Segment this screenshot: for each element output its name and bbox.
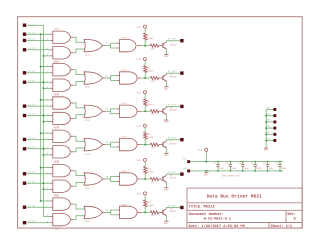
wire stub right pad 5: [266, 133, 273, 135]
svg-text:T2: T2: [170, 73, 173, 76]
wire pad 3b to gate: [26, 115, 50, 117]
node output pad D2: [180, 105, 183, 108]
svg-text:2: 2: [47, 172, 48, 174]
node junction row 4: [144, 144, 146, 146]
wire IC1D out to junction: [141, 45, 150, 47]
svg-text:1: 1: [47, 131, 48, 133]
svg-text:D3 OUT: D3 OUT: [168, 137, 176, 140]
wire junction up: [144, 106, 146, 112]
node junction row 1: [144, 45, 146, 47]
svg-text:100n: 100n: [281, 167, 286, 170]
node cap pad VCC: [187, 160, 190, 163]
wire cap top rail: [190, 161, 283, 163]
node input pad 6a: [23, 206, 26, 209]
wire bus A to gate input row 4: [41, 132, 51, 134]
svg-text:BC337: BC337: [170, 109, 177, 112]
wire bus A to gate input row 2: [41, 66, 51, 68]
svg-text:D5 B5: D5 B5: [28, 220, 35, 223]
and-gate IC5A: [50, 161, 73, 177]
node output pad D1: [180, 71, 183, 74]
wire pad 4a to gate: [26, 138, 50, 140]
wire OR out to IC2D: [106, 75, 117, 81]
svg-text:D1 A1: D1 A1: [28, 70, 35, 73]
and-gate IC3A: [50, 93, 73, 109]
wire IC3B out to OR: [73, 115, 85, 119]
power VCC row 2: [137, 58, 147, 61]
wire emitter down: [165, 49, 167, 53]
wire bus A to gate input row 5: [41, 167, 51, 169]
node junction row 6: [144, 211, 146, 213]
node input pad 3b: [23, 114, 26, 117]
svg-text:GND: GND: [164, 88, 168, 91]
node output pad D0: [180, 39, 183, 42]
svg-text:BC337: BC337: [170, 44, 177, 47]
svg-text:R2: R2: [151, 70, 154, 73]
title block: [187, 188, 302, 228]
resistor R6A pullup: [144, 200, 151, 207]
wire IC3D out to junction: [141, 110, 150, 112]
ground row 5: [164, 186, 169, 191]
svg-text:IC5A: IC5A: [53, 161, 59, 164]
svg-text:4: 4: [47, 215, 48, 217]
svg-text:GND: GND: [267, 107, 271, 110]
wire pad 3a to gate: [26, 105, 50, 107]
svg-text:GND: GND: [267, 113, 271, 116]
svg-text:2k2: 2k2: [151, 146, 155, 149]
wire input row1: [26, 33, 50, 35]
border frame: [18, 17, 303, 228]
svg-text:N6: N6: [106, 209, 108, 211]
or-gate IC3C: [84, 105, 106, 122]
wire resistor to base: [159, 211, 163, 213]
svg-text:1: 1: [47, 166, 48, 168]
svg-text:GND: GND: [204, 174, 208, 177]
svg-text:5: 5: [47, 54, 48, 56]
svg-text:4k7: 4k7: [147, 104, 151, 107]
wire IC4B out to OR: [73, 148, 85, 152]
svg-text:4: 4: [47, 181, 48, 183]
svg-text:4 5: 4 5: [86, 218, 90, 220]
and-gate IC4A: [50, 127, 73, 143]
svg-text:4k7: 4k7: [147, 171, 151, 174]
and-gate IC1A: [50, 28, 73, 44]
wire emitter down: [165, 182, 167, 186]
svg-text:D4 A4: D4 A4: [28, 171, 35, 174]
wire input row1: [26, 39, 50, 41]
svg-text:4k7: 4k7: [147, 137, 151, 140]
wire IC2A out to OR: [73, 70, 85, 75]
wire stub right pad 4: [266, 127, 273, 129]
power VCC row 3: [137, 91, 147, 94]
node output pad D5: [180, 206, 183, 209]
node right pad 3: [273, 121, 276, 124]
node input pad row1: [23, 39, 26, 42]
power VCC row 5: [137, 159, 147, 162]
svg-text:N4: N4: [106, 142, 108, 144]
svg-text:D0 OUT: D0 OUT: [168, 38, 176, 41]
node cap pad GND: [187, 170, 190, 173]
svg-text:GND: GND: [183, 167, 187, 170]
svg-text:D2 B2: D2 B2: [28, 113, 35, 116]
transistor T4 BC337: [163, 140, 177, 148]
svg-text:IC6A: IC6A: [53, 195, 59, 198]
svg-text:Data Bus Driver M621: Data Bus Driver M621: [207, 194, 262, 199]
svg-text:Sheet: 1/1: Sheet: 1/1: [271, 224, 293, 228]
wire bus B to gate input: [44, 55, 51, 57]
svg-text:5: 5: [47, 187, 48, 189]
svg-text:GND: GND: [267, 138, 271, 141]
wire pad 6a to gate: [26, 206, 50, 208]
wire pad 2a to gate: [26, 72, 50, 74]
svg-text:5: 5: [47, 120, 48, 122]
wire resistor to VCC: [144, 195, 146, 200]
svg-text:IC6C: IC6C: [85, 220, 91, 223]
wire collector to output pad: [166, 174, 180, 175]
resistor R2A pullup: [144, 66, 151, 73]
ground row 2: [164, 85, 169, 90]
node junction row 5: [144, 178, 146, 180]
svg-text:D4 OUT: D4 OUT: [168, 171, 176, 174]
wire bus A vertical: [40, 34, 42, 201]
svg-text:W-CS-M621-0-1: W-CS-M621-0-1: [204, 217, 231, 221]
wire IC5D out to junction: [141, 178, 150, 180]
wire IC5B out to OR: [73, 182, 85, 186]
wire IC6B out to OR: [73, 216, 85, 220]
wire bus B to gate input row 2: [44, 87, 51, 89]
svg-text:R6: R6: [151, 204, 154, 207]
and-gate IC1B: [50, 47, 73, 64]
wire resistor to base: [159, 178, 163, 180]
ground row 6: [164, 219, 169, 224]
svg-text:C4: C4: [251, 162, 254, 165]
svg-text:R12: R12: [147, 201, 151, 204]
wire IC1B out to OR: [73, 49, 85, 53]
svg-text:N5: N5: [106, 176, 108, 178]
wire bus B to gate input row 4: [44, 154, 51, 156]
node junction row 3: [144, 110, 146, 112]
resistor R1A pullup: [144, 33, 151, 40]
wire resistor to VCC: [144, 127, 146, 132]
ground row 3: [164, 118, 169, 123]
resistor R4B base: [150, 136, 158, 149]
svg-text:REV:: REV:: [287, 212, 295, 216]
transistor T2 BC337: [163, 73, 177, 81]
and-gate IC3B: [50, 112, 73, 129]
svg-text:IC1D: IC1D: [121, 37, 127, 40]
wire pad 5b to gate: [26, 182, 50, 184]
svg-text:4: 4: [47, 114, 48, 116]
wire junction up: [144, 72, 146, 78]
wire IC6D out to junction: [141, 211, 150, 213]
svg-text:IC2D: IC2D: [121, 69, 127, 72]
capacitor C6: [275, 161, 286, 172]
wire junction up: [144, 40, 146, 46]
svg-text:2k2: 2k2: [151, 80, 155, 83]
and-gate IC2A: [50, 60, 73, 76]
svg-text:4k7: 4k7: [147, 205, 151, 208]
wire stub right pad 1: [266, 109, 273, 111]
resistor R3B base: [150, 103, 158, 116]
wire emitter down: [165, 81, 167, 85]
svg-text:GND: GND: [164, 154, 168, 157]
wire resistor to VCC: [144, 60, 146, 65]
node junction row 2: [144, 77, 146, 79]
svg-text:2: 2: [47, 71, 48, 73]
svg-text:R10: R10: [147, 133, 151, 136]
wire right ground bus vertical: [265, 110, 267, 147]
svg-text:Date: 1/29/2017 4:03:04 PM: Date: 1/29/2017 4:03:04 PM: [189, 224, 245, 228]
svg-text:D3 A3: D3 A3: [28, 137, 35, 140]
svg-text:R4: R4: [151, 136, 154, 139]
wire IC1A out to OR: [73, 37, 85, 42]
svg-text:R7: R7: [147, 34, 150, 37]
svg-text:D0 A2: D0 A2: [28, 38, 35, 41]
and-gate IC2B: [50, 79, 73, 96]
svg-text:100n: 100n: [244, 167, 249, 170]
node right pad 1: [273, 108, 276, 111]
svg-text:C6: C6: [275, 162, 278, 165]
svg-text:T5: T5: [170, 174, 173, 177]
wire junction up: [144, 173, 146, 179]
svg-text:IC3C: IC3C: [85, 119, 91, 122]
wire bus A to gate input row 6: [41, 200, 51, 202]
or-gate IC4C: [84, 138, 106, 155]
svg-text:IC5D: IC5D: [121, 170, 127, 173]
svg-text:2: 2: [47, 138, 48, 140]
wire resistor to VCC: [144, 28, 146, 33]
svg-text:N3: N3: [106, 108, 108, 110]
ground row 1: [164, 53, 169, 58]
svg-text:VCC: VCC: [183, 158, 187, 161]
svg-text:GND: GND: [164, 55, 168, 58]
node input pad row1: [23, 33, 26, 36]
transistor T6 BC337: [163, 208, 177, 216]
wire OR out to IC3D: [106, 108, 117, 114]
svg-text:Document Number:: Document Number:: [189, 212, 225, 216]
wire OR out to IC6D: [106, 209, 117, 215]
and-gate IC3D: [117, 102, 141, 117]
and-gate IC5B: [50, 180, 73, 197]
wire IC6A out to OR: [73, 204, 85, 209]
svg-text:4k7: 4k7: [147, 70, 151, 73]
power VCC cap row: [198, 148, 208, 162]
svg-text:IC6D: IC6D: [121, 203, 127, 206]
svg-text:VCC: VCC: [137, 125, 141, 128]
node right pad 5: [273, 133, 276, 136]
wire pad 5a to gate: [26, 173, 50, 175]
transistor T3 BC337: [163, 107, 177, 115]
wire IC3A out to OR: [73, 103, 85, 108]
svg-text:IC4D: IC4D: [121, 136, 127, 139]
wire pad 4b to gate: [26, 148, 50, 150]
svg-text:GND: GND: [164, 222, 168, 225]
svg-text:D2 OUT: D2 OUT: [168, 103, 176, 106]
svg-text:T4: T4: [170, 140, 173, 143]
svg-text:IC6B: IC6B: [53, 227, 59, 230]
wire pad 6b to gate: [26, 222, 50, 224]
or-gate IC1C: [84, 39, 106, 56]
svg-text:D1 B1: D1 B1: [28, 79, 35, 82]
node output pad D3: [180, 138, 183, 141]
transistor T5 BC337: [163, 174, 177, 182]
svg-text:5: 5: [47, 221, 48, 223]
resistor R5B base: [150, 171, 158, 184]
node input pad row1: [23, 48, 26, 51]
svg-text:IC5C: IC5C: [85, 187, 91, 190]
node input pad 5b: [23, 182, 26, 185]
svg-text:IC3A: IC3A: [53, 93, 59, 96]
power VCC row 4: [137, 124, 147, 127]
svg-text:2k2: 2k2: [151, 181, 155, 184]
svg-text:VCC: VCC: [137, 159, 141, 162]
svg-text:C5: C5: [263, 162, 266, 165]
capacitor C4: [251, 161, 262, 172]
wire collector to output pad: [166, 41, 180, 42]
svg-text:2k2: 2k2: [151, 47, 155, 50]
wire EN to bus B: [26, 24, 44, 26]
svg-text:*CAP 100NF 16V*: *CAP 100NF 16V*: [221, 175, 241, 178]
svg-text:2: 2: [47, 104, 48, 106]
wire collector to output pad: [166, 140, 180, 141]
node input pad 6b: [23, 221, 26, 224]
svg-text:GND: GND: [264, 149, 268, 152]
svg-text:IC2A: IC2A: [53, 60, 59, 63]
svg-text:N2: N2: [106, 75, 108, 77]
svg-text:4: 4: [47, 147, 48, 149]
svg-text:2: 2: [47, 205, 48, 207]
power VCC row 6: [137, 192, 147, 195]
wire bus B to gate input row 5: [44, 188, 51, 190]
svg-text:IC3D: IC3D: [121, 102, 127, 105]
svg-text:BC337: BC337: [170, 177, 177, 180]
svg-text:C3: C3: [238, 162, 241, 165]
svg-text:C1: C1: [213, 162, 216, 165]
capacitor C5: [263, 161, 274, 172]
wire IC2B out to OR: [73, 81, 85, 85]
svg-text:4 5: 4 5: [86, 51, 90, 53]
resistor R5A pullup: [144, 167, 151, 174]
svg-text:GND: GND: [164, 121, 168, 124]
svg-text:GND: GND: [164, 189, 168, 192]
wire resistor to VCC: [144, 94, 146, 99]
wire emitter down: [165, 148, 167, 152]
svg-text:4 5: 4 5: [86, 117, 90, 119]
node input pad 2a: [23, 71, 26, 74]
svg-text:100n: 100n: [219, 167, 224, 170]
node right pad 6: [273, 139, 276, 142]
svg-text:100n: 100n: [231, 167, 236, 170]
svg-text:R3: R3: [151, 103, 154, 106]
and-gate IC6D: [117, 203, 141, 218]
svg-text:D4 B4: D4 B4: [28, 180, 35, 183]
svg-text:M621X: M621X: [203, 204, 215, 209]
wire emitter down: [165, 115, 167, 119]
svg-text:D0 A1: D0 A1: [28, 31, 35, 34]
svg-text:D5 A5: D5 A5: [28, 204, 35, 207]
node input pad 3a: [23, 104, 26, 107]
wire bus B to gate input row 6: [44, 216, 51, 218]
svg-text:0: 0: [294, 217, 296, 221]
svg-text:4: 4: [47, 80, 48, 82]
svg-text:1: 1: [47, 32, 48, 34]
and-gate IC5D: [117, 170, 141, 185]
resistor R1B base: [150, 37, 158, 50]
wire collector to output pad: [166, 73, 180, 74]
wire stub right pad 2: [266, 115, 273, 117]
resistor R3A pullup: [144, 99, 151, 106]
svg-text:IC1A: IC1A: [53, 28, 59, 31]
wire emitter down: [165, 216, 167, 220]
svg-text:D2 A2: D2 A2: [28, 103, 35, 106]
svg-text:100n: 100n: [256, 167, 261, 170]
and-gate IC2D: [117, 69, 141, 84]
svg-text:5: 5: [47, 86, 48, 88]
svg-text:5: 5: [47, 153, 48, 155]
capacitor C1: [213, 161, 224, 172]
wire bus B to gate input row 3: [44, 121, 51, 123]
svg-text:R8: R8: [147, 67, 150, 70]
node input pad 5a: [23, 172, 26, 175]
node right pad 4: [273, 127, 276, 130]
svg-text:R9: R9: [147, 100, 150, 103]
wire input row1: [26, 49, 50, 51]
capacitor C2: [226, 161, 237, 172]
wire IC2D out to junction: [141, 77, 150, 79]
wire junction up: [144, 207, 146, 213]
and-gate IC1D: [117, 37, 141, 52]
wire OR out to IC4D: [106, 142, 117, 148]
svg-text:1: 1: [47, 199, 48, 201]
or-gate IC5C: [84, 173, 106, 190]
wire resistor to base: [159, 110, 163, 112]
svg-text:VCC: VCC: [137, 193, 141, 196]
svg-text:2k2: 2k2: [151, 214, 155, 217]
wire cap bottom rail: [190, 170, 283, 172]
svg-text:D1 OUT: D1 OUT: [168, 70, 176, 73]
and-gate IC4B: [50, 146, 73, 163]
resistor R4A pullup: [144, 132, 151, 139]
node input pad 4b: [23, 147, 26, 150]
wire pad 2b to gate: [26, 81, 50, 83]
transistor T1 BC337: [163, 41, 177, 49]
or-gate IC6C: [84, 206, 106, 223]
svg-text:IC2C: IC2C: [85, 86, 91, 89]
svg-text:D5 OUT: D5 OUT: [168, 205, 176, 208]
wire resistor to base: [159, 144, 163, 146]
svg-text:4 5: 4 5: [86, 185, 90, 187]
wire OR out to IC1D: [106, 43, 117, 49]
svg-text:BC337: BC337: [170, 143, 177, 146]
wire IC4A out to OR: [73, 136, 85, 141]
svg-text:VCC: VCC: [137, 92, 141, 95]
svg-text:TITLE:: TITLE:: [189, 204, 203, 209]
svg-text:1: 1: [47, 65, 48, 67]
svg-text:T6: T6: [170, 208, 173, 211]
wire stub right pad 3: [266, 121, 273, 123]
wire IC4D out to junction: [141, 144, 150, 146]
svg-text:R5: R5: [151, 171, 154, 174]
svg-text:R11: R11: [147, 168, 151, 171]
and-gate IC4D: [117, 136, 141, 151]
ground row 4: [164, 152, 169, 157]
svg-text:D3 B3: D3 B3: [28, 146, 35, 149]
svg-text:VCC: VCC: [137, 58, 141, 61]
wire stub right pad 6: [266, 140, 273, 142]
wire junction up: [144, 139, 146, 145]
svg-text:BC337: BC337: [170, 76, 177, 79]
svg-text:C2: C2: [226, 162, 229, 165]
svg-text:VCC: VCC: [137, 26, 141, 29]
